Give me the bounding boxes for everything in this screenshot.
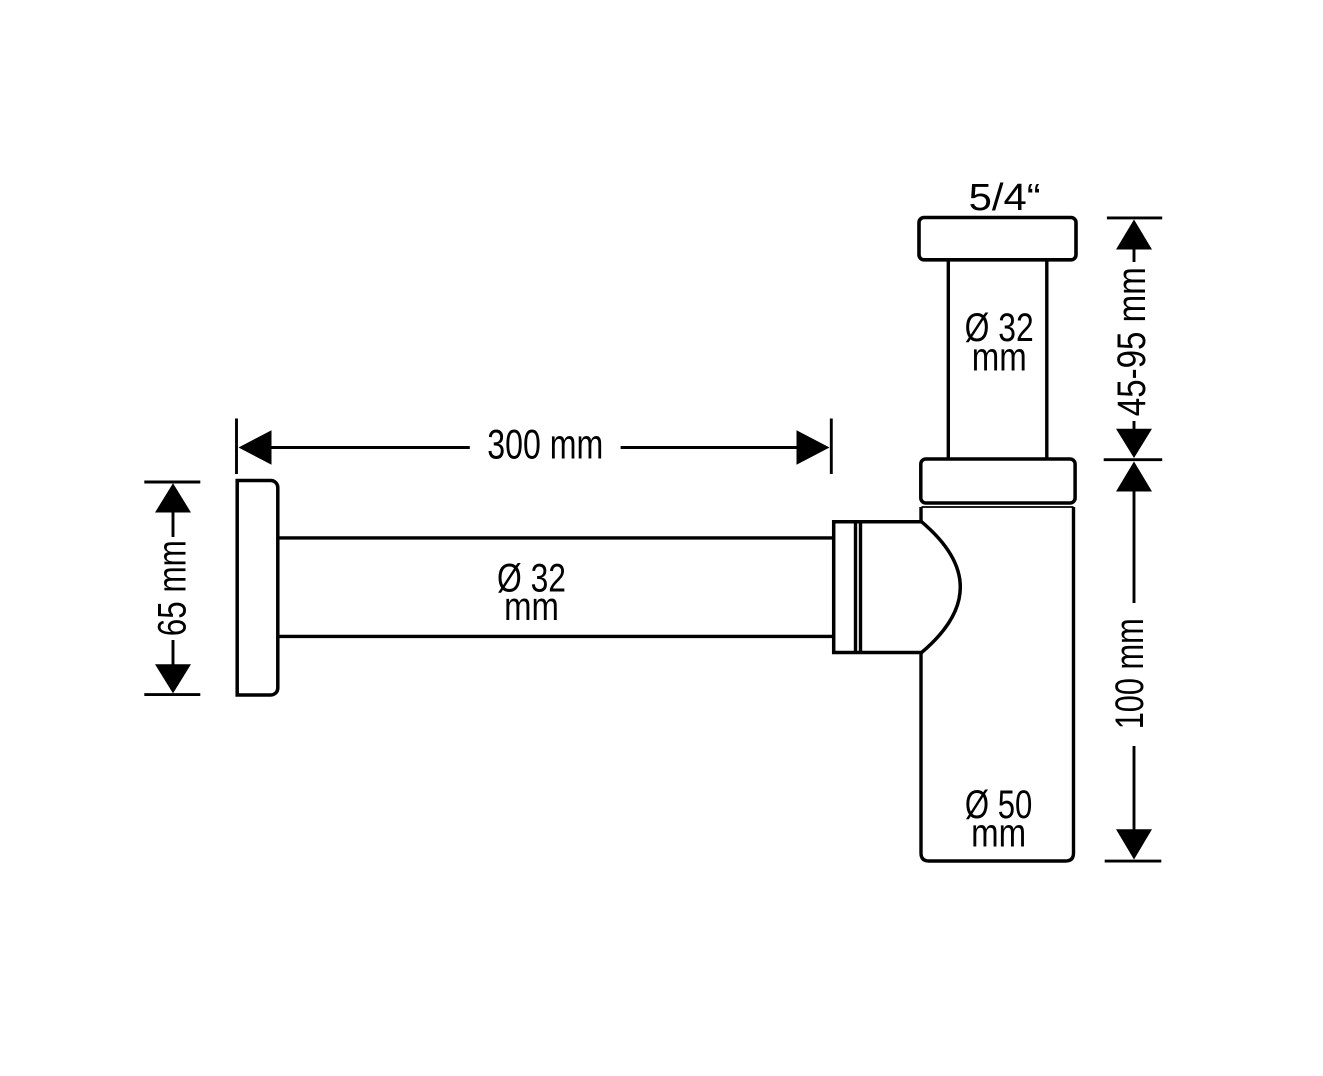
dimension 65 mm: bottom tick [144,693,200,696]
dimension 65 mm: top tick [144,481,200,484]
body cup (bottle trap, Ø 50 mm) [921,507,1074,861]
dimension 45-95 mm / 100 mm shared middle tick [1104,458,1163,461]
dimension 45-95 mm: top tick [1107,216,1162,219]
dimension 45-95 mm: line lower segment [1133,421,1136,430]
wall flange rosette [237,481,278,696]
dimension 65 mm: line upper segment [172,511,175,537]
dimension 65 mm: line lower segment [172,640,175,666]
dimension 45-95 mm: bottom arrow (down) [1116,429,1152,458]
svg-text:300 mm: 300 mm [487,420,603,467]
dimension 100 mm: top arrow (up, below shared tick) [1116,462,1152,492]
svg-text:mm: mm [972,336,1027,380]
dimension 45-95 mm: top arrow (up) [1116,220,1152,250]
dimension 100 mm: bottom tick [1105,860,1162,863]
dimension 45-95 mm: line upper segment [1133,248,1136,262]
svg-text:45-95 mm: 45-95 mm [1110,267,1154,416]
dimension 100 mm: line lower segment [1133,746,1136,831]
dimension 65 mm: bottom arrow [155,664,191,693]
dimension 300 mm: line right segment [621,446,798,449]
elbow dome poking into body [834,522,961,653]
dimension 300 mm: right arrow [797,430,830,464]
dimension 100 mm: line upper segment [1133,490,1136,603]
collar nut on body top [921,459,1075,503]
svg-text:5/4“: 5/4“ [969,177,1041,219]
svg-text:mm: mm [971,812,1026,856]
dimension 300 mm: line left segment [270,446,470,449]
elbow flange line [859,522,862,653]
dimension 300 mm: right tick [830,419,833,475]
svg-text:65 mm: 65 mm [150,540,194,636]
top cap nut 5/4" [919,218,1076,260]
elbow compression nut inner line [854,522,857,653]
horizontal pipe Ø 32 mm [277,536,832,539]
dimension 300 mm: left arrow [239,430,272,464]
dimension 300 mm: left tick [235,419,238,475]
vertical inlet pipe Ø 32 mm [947,259,950,459]
dimension 100 mm: bottom arrow (down) [1116,829,1152,859]
svg-text:100 mm: 100 mm [1108,618,1152,729]
svg-text:mm: mm [504,585,559,629]
washer line under collar (body top thin line) [922,506,1074,508]
dimension 65 mm: top arrow [155,483,191,512]
